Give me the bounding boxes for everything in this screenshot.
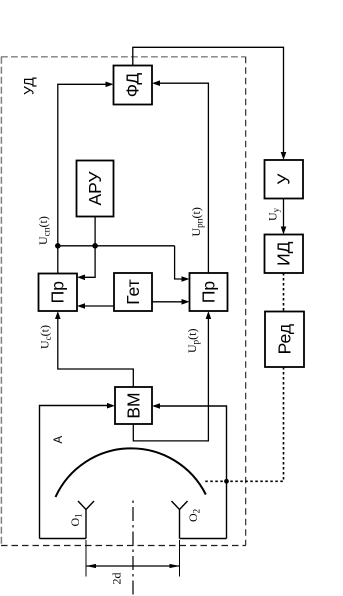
wire AGC to Пр2 control (175, 246, 182, 279)
svg-text:Пр: Пр (199, 281, 219, 303)
block У (265, 160, 304, 199)
wire ВМ bottom output to Пр2 (Uр path) (133, 319, 208, 441)
wire Гет to Пр1 (85, 305, 115, 307)
antenna O2 symbol (179, 510, 181, 539)
block ВМ (115, 387, 152, 424)
antenna box A bottom edge right segment (180, 538, 227, 540)
block Ред (265, 312, 304, 368)
antenna box A bottom edge left segment (40, 538, 87, 540)
svg-text:Пр: Пр (48, 281, 68, 303)
svg-text:2d: 2d (110, 573, 124, 585)
svg-text:ИД: ИД (274, 241, 294, 266)
block Гет (114, 273, 152, 311)
dashed enclosure УД bottom edge (1, 545, 246, 547)
svg-text:Uр(t): Uр(t) (185, 328, 201, 353)
wire ВМ output up to Пр1 (Uc path) (58, 319, 134, 387)
block ИД (265, 235, 304, 274)
dimension line 2d (86, 565, 180, 567)
centre axis dash-dot line (132, 500, 134, 596)
wire Гет to Пр2 (152, 301, 182, 303)
svg-text:АРУ: АРУ (85, 171, 105, 206)
wire АРУ down to bus (94, 217, 96, 246)
wire У to ИД (283, 199, 285, 228)
dashed enclosure УД top edge (1, 56, 246, 58)
wire Пр2 output up to ФД right input (160, 83, 209, 273)
dimension extension line O1 (85, 540, 87, 577)
antenna box A left edge and top-left wire into ВМ (40, 406, 108, 539)
wire Пр1 output up to ФД left input (58, 84, 106, 273)
svg-text:А: А (53, 436, 65, 444)
node АРУ junction dot (92, 243, 98, 249)
svg-text:Ред: Ред (275, 324, 295, 354)
svg-text:Гет: Гет (123, 279, 143, 304)
block Пр U1 (39, 274, 78, 312)
wire AGC bus horizontal (58, 245, 175, 247)
block АРУ (77, 161, 114, 217)
dashed enclosure УД right edge (245, 57, 247, 546)
wire ФД output to У (top feedback) (133, 47, 284, 152)
antenna box A right edge and top-right wire into ВМ (160, 406, 227, 539)
antenna O1 symbol (85, 510, 87, 539)
dimension extension line O2 (179, 540, 181, 577)
dotted link ИД to Ред (283, 273, 285, 312)
dashed enclosure УД left edge (0, 57, 2, 546)
node Uсп junction dot (55, 243, 61, 249)
dotted link Ред to antenna drive (204, 367, 284, 481)
svg-text:У: У (274, 173, 294, 185)
node mechanical junction dot (224, 479, 229, 484)
reflector arc (56, 448, 206, 497)
svg-text:ФД: ФД (123, 73, 143, 98)
block ФД (114, 66, 153, 105)
wire AGC to Пр1 control (85, 246, 96, 277)
svg-text:УД: УД (21, 77, 37, 95)
block Пр U2 (190, 273, 228, 311)
svg-text:Uс(t): Uс(t) (38, 325, 54, 349)
svg-text:ВМ: ВМ (124, 392, 144, 418)
